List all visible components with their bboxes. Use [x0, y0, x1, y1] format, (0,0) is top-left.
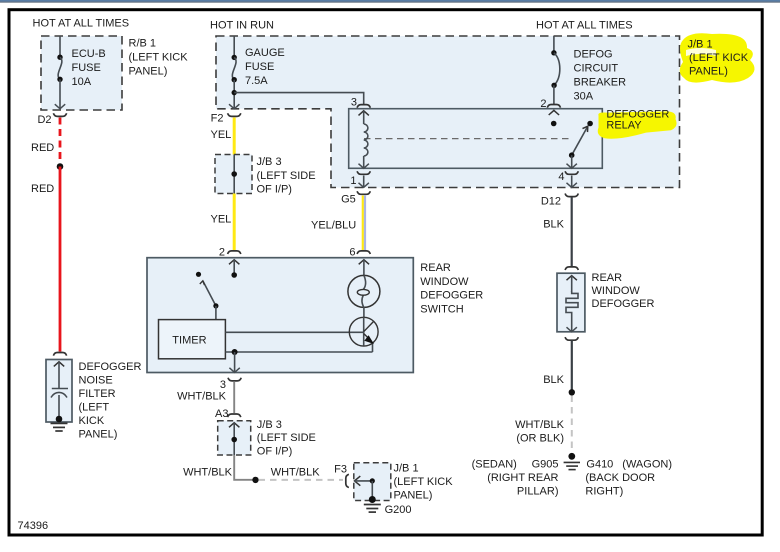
- svg-text:HOT IN RUN: HOT IN RUN: [210, 20, 274, 32]
- svg-text:PANEL): PANEL): [394, 489, 433, 501]
- svg-text:D12: D12: [541, 196, 561, 208]
- svg-text:R/B 1: R/B 1: [129, 38, 157, 50]
- svg-text:TIMER: TIMER: [172, 335, 206, 347]
- svg-text:WHT/BLK: WHT/BLK: [183, 467, 233, 479]
- svg-text:RED: RED: [31, 142, 54, 154]
- svg-text:G410: G410: [586, 458, 613, 470]
- svg-text:YEL/BLU: YEL/BLU: [311, 220, 356, 232]
- svg-text:FILTER: FILTER: [79, 388, 116, 400]
- svg-text:(OR BLK): (OR BLK): [516, 432, 564, 444]
- svg-text:ECU-B: ECU-B: [72, 48, 106, 60]
- svg-text:3: 3: [351, 97, 357, 109]
- svg-text:(WAGON): (WAGON): [622, 458, 672, 470]
- svg-text:(LEFT KICK: (LEFT KICK: [394, 476, 454, 488]
- svg-text:G5: G5: [341, 194, 356, 206]
- svg-text:J/B 3: J/B 3: [257, 419, 282, 431]
- svg-text:NOISE: NOISE: [79, 375, 113, 387]
- svg-text:DEFOG: DEFOG: [574, 48, 613, 60]
- svg-text:3: 3: [220, 379, 226, 391]
- svg-text:G200: G200: [385, 504, 412, 516]
- svg-text:(LEFT SIDE: (LEFT SIDE: [257, 170, 316, 182]
- svg-text:WINDOW: WINDOW: [420, 276, 469, 288]
- svg-text:REAR: REAR: [592, 272, 623, 284]
- svg-text:10A: 10A: [72, 76, 92, 88]
- svg-text:BREAKER: BREAKER: [574, 77, 627, 89]
- svg-text:74396: 74396: [18, 520, 49, 532]
- svg-text:DEFOGGER: DEFOGGER: [592, 298, 655, 310]
- svg-text:RED: RED: [31, 183, 54, 195]
- svg-text:FUSE: FUSE: [245, 61, 274, 73]
- svg-text:RELAY: RELAY: [606, 120, 642, 132]
- svg-text:WHT/BLK: WHT/BLK: [177, 390, 227, 402]
- svg-text:PANEL): PANEL): [129, 66, 168, 78]
- svg-text:(LEFT: (LEFT: [79, 402, 110, 414]
- svg-text:DEFOGGER: DEFOGGER: [606, 108, 669, 120]
- svg-text:(LEFT KICK: (LEFT KICK: [689, 52, 749, 64]
- svg-text:OF I/P): OF I/P): [257, 445, 292, 457]
- svg-text:F2: F2: [211, 113, 224, 125]
- svg-text:WINDOW: WINDOW: [592, 285, 641, 297]
- svg-text:F3: F3: [334, 464, 347, 476]
- svg-text:HOT AT ALL TIMES: HOT AT ALL TIMES: [33, 18, 130, 30]
- svg-text:WHT/BLK: WHT/BLK: [271, 467, 321, 479]
- svg-text:YEL: YEL: [211, 129, 232, 141]
- svg-text:(BACK DOOR: (BACK DOOR: [585, 472, 655, 484]
- svg-text:G905: G905: [532, 458, 559, 470]
- svg-text:DEFOGGER: DEFOGGER: [79, 361, 142, 373]
- svg-text:YEL: YEL: [211, 214, 232, 226]
- svg-text:7.5A: 7.5A: [245, 75, 268, 87]
- svg-text:KICK: KICK: [79, 415, 105, 427]
- svg-text:(LEFT KICK: (LEFT KICK: [129, 52, 189, 64]
- svg-text:BLK: BLK: [543, 374, 564, 386]
- svg-text:1: 1: [350, 175, 356, 187]
- svg-text:(RIGHT REAR: (RIGHT REAR: [487, 472, 558, 484]
- svg-text:PANEL): PANEL): [689, 66, 728, 78]
- svg-text:HOT AT ALL TIMES: HOT AT ALL TIMES: [536, 20, 633, 32]
- svg-text:DEFOGGER: DEFOGGER: [420, 290, 483, 302]
- svg-text:J/B 1: J/B 1: [394, 463, 419, 475]
- svg-text:CIRCUIT: CIRCUIT: [574, 62, 619, 74]
- svg-text:(LEFT SIDE: (LEFT SIDE: [257, 432, 316, 444]
- svg-text:6: 6: [349, 247, 355, 259]
- svg-text:BLK: BLK: [543, 219, 564, 231]
- svg-text:PILLAR): PILLAR): [517, 485, 559, 497]
- svg-text:4: 4: [558, 171, 564, 183]
- svg-text:30A: 30A: [574, 91, 594, 103]
- svg-text:(SEDAN): (SEDAN): [472, 458, 517, 470]
- svg-text:D2: D2: [37, 114, 51, 126]
- svg-text:J/B 1: J/B 1: [688, 39, 713, 51]
- svg-text:OF I/P): OF I/P): [257, 184, 292, 196]
- svg-text:RIGHT): RIGHT): [585, 485, 623, 497]
- svg-text:GAUGE: GAUGE: [245, 47, 285, 59]
- svg-text:J/B 3: J/B 3: [257, 156, 282, 168]
- svg-text:2: 2: [540, 98, 546, 110]
- svg-text:PANEL): PANEL): [79, 429, 118, 441]
- svg-text:SWITCH: SWITCH: [420, 304, 463, 316]
- svg-text:2: 2: [219, 247, 225, 259]
- svg-text:REAR: REAR: [420, 262, 451, 274]
- svg-text:WHT/BLK: WHT/BLK: [515, 419, 565, 431]
- svg-text:A3: A3: [215, 408, 228, 420]
- svg-text:FUSE: FUSE: [72, 62, 101, 74]
